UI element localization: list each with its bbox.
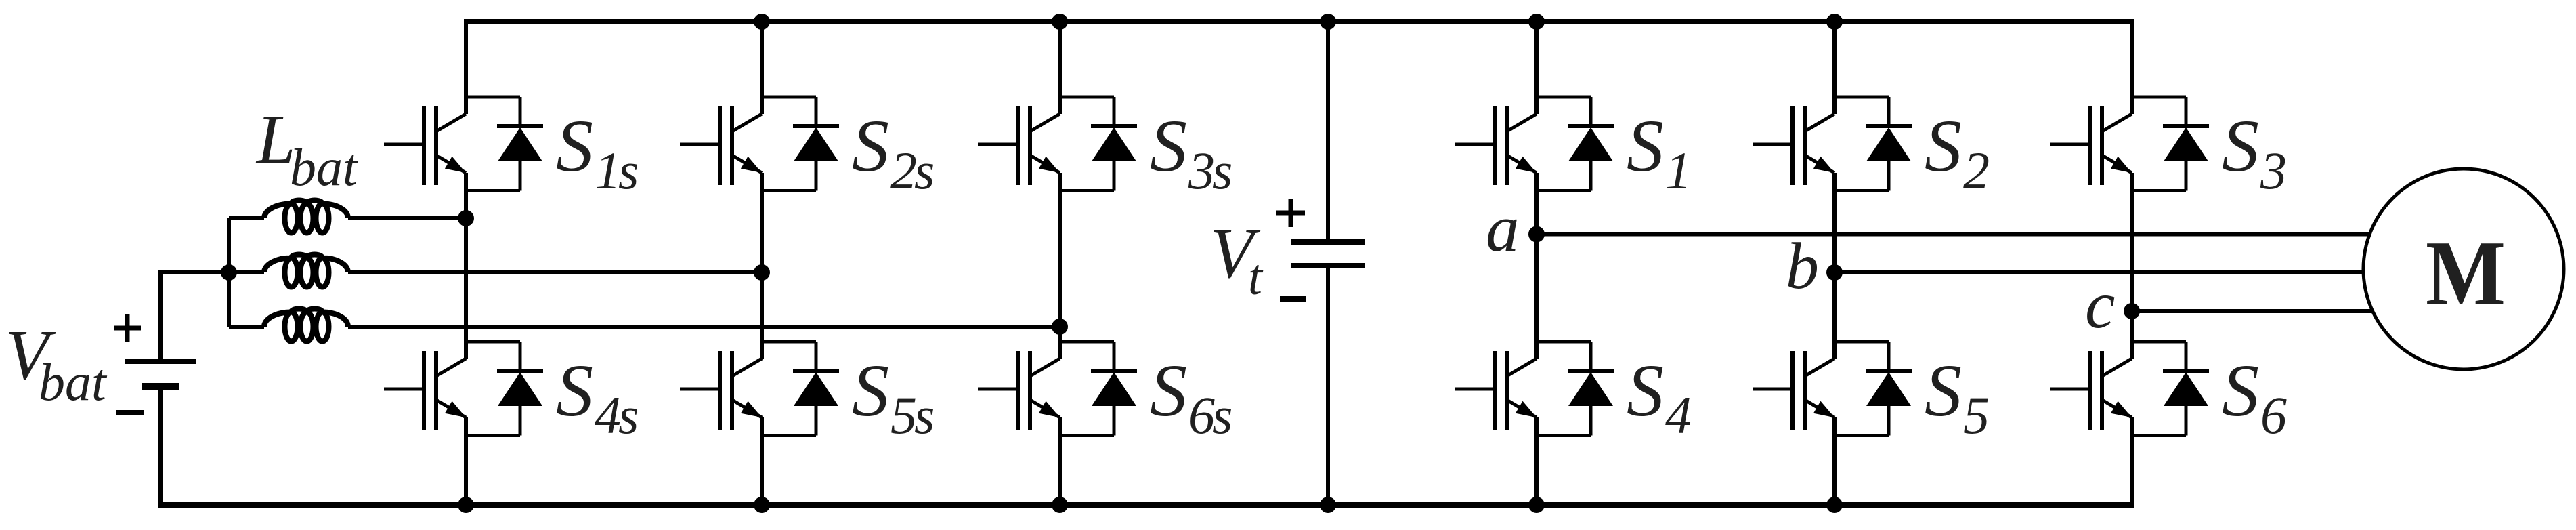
svg-text:bat: bat [290,138,359,197]
IGBT switch S5s with antiparallel diode [680,342,839,436]
wire: leg a (S1/S4) vertical segments [1534,20,1539,508]
IGBT switch S2 with antiparallel diode [1753,97,1912,191]
wire: coil 3 to leg 3 midpoint [348,325,1060,329]
IGBT switch S2s with antiparallel diode [680,97,839,191]
svg-text:2s: 2s [890,141,933,200]
wire: coil 1 to leg 1 midpoint [348,216,466,220]
IGBT switch S6s with antiparallel diode [978,342,1137,436]
svg-text:c: c [2085,267,2115,342]
IGBT switch S1s with antiparallel diode [384,97,543,191]
wire: phase b from leg b to motor [1834,270,2363,274]
node: bottom rail junction x=2269 [1528,497,1545,513]
wire: leg c (S3/S6) vertical segments [2130,20,2134,508]
battery V_bat negative plate [142,383,179,390]
node: bottom rail junction x=1125 [754,497,770,513]
IGBT switch S6 with antiparallel diode [2050,342,2209,436]
capacitor V_t top plate [1291,239,1365,245]
svg-text:S: S [1925,349,1962,432]
wire: bottom DC rail [158,502,2134,508]
wire: capacitor bottom lead [1326,266,1330,505]
node: leg 1 midpoint [458,210,474,226]
svg-text:S: S [556,349,593,432]
IGBT switch S1 with antiparallel diode [1455,97,1614,191]
inductor L_bat coil 1 [229,201,348,233]
svg-text:b: b [1786,230,1819,303]
svg-text:3s: 3s [1188,141,1231,200]
capacitor minus sign [1280,296,1306,302]
wire: inductor input bus [227,218,231,327]
svg-text:S: S [1150,104,1187,187]
wire: phase c from leg c to motor [2132,309,2373,313]
wire: phase a from leg a to motor [1537,232,2369,237]
svg-text:S: S [2222,104,2259,187]
node: bottom rail junction x=2709 [1826,497,1843,513]
wire: leg 1 (S1s/S4s) vertical segments [464,20,468,508]
battery V_bat positive lead [160,272,229,361]
wire: top DC rail [464,19,2134,24]
node: top rail junction x=2709 [1826,14,1843,30]
node: bottom rail junction x=688 [458,497,474,513]
battery minus sign [116,410,144,415]
wire: leg b (S2/S5) vertical segments [1832,20,1837,508]
svg-text:bat: bat [39,352,108,411]
IGBT switch S3s with antiparallel diode [978,97,1137,191]
svg-text:5: 5 [1963,386,1988,445]
svg-text:6s: 6s [1188,386,1231,445]
svg-text:a: a [1486,192,1520,266]
svg-text:S: S [2222,349,2259,432]
node: leg 3 midpoint [1052,319,1068,335]
svg-text:6: 6 [2260,386,2287,445]
battery V_bat negative lead [158,386,163,505]
motor M circle [2363,169,2564,369]
battery plus sign [114,314,141,342]
capacitor V_t bottom plate [1291,263,1365,268]
svg-text:2: 2 [1963,141,1989,200]
svg-text:1: 1 [1665,141,1689,200]
svg-text:5s: 5s [890,386,933,445]
IGBT switch S3 with antiparallel diode [2050,97,2209,191]
svg-text:M: M [2426,222,2506,325]
node: leg 2 midpoint [754,264,770,281]
node: top rail junction x=1565 [1052,14,1068,30]
svg-text:S: S [1627,104,1664,187]
svg-text:S: S [852,349,889,432]
svg-text:S: S [852,104,889,187]
node: top rail junction x=1961 [1320,14,1336,30]
svg-text:4: 4 [1665,386,1691,445]
node b [1826,264,1843,281]
IGBT switch S4 with antiparallel diode [1455,342,1614,436]
node c [2124,303,2140,319]
node: top rail junction x=2269 [1528,14,1545,30]
svg-text:S: S [1925,104,1962,187]
node: bottom rail junction x=1565 [1052,497,1068,513]
svg-text:3: 3 [2260,141,2285,200]
svg-text:1s: 1s [595,141,637,200]
wire: capacitor top lead [1326,22,1330,242]
svg-text:t: t [1248,249,1264,306]
node a [1528,226,1545,243]
svg-text:S: S [1150,349,1187,432]
wire: leg 2 (S2s/S5s) vertical segments [760,20,764,508]
inductor L_bat coil 3 [229,309,348,342]
svg-text:4s: 4s [595,386,637,445]
battery V_bat positive plate [125,359,196,364]
wire: coil 2 to leg 2 midpoint [348,270,762,274]
svg-text:S: S [1627,349,1664,432]
wire: leg 3 (S3s/S6s) vertical segments [1058,20,1062,508]
IGBT switch S5 with antiparallel diode [1753,342,1912,436]
capacitor plus sign [1276,199,1305,227]
node: top rail junction x=1125 [754,14,770,30]
node: bottom rail junction x=1961 [1320,497,1336,513]
node: battery-inductor junction [221,264,237,281]
IGBT switch S4s with antiparallel diode [384,342,543,436]
inductor L_bat coil 2 [229,255,348,287]
svg-text:S: S [556,104,593,187]
